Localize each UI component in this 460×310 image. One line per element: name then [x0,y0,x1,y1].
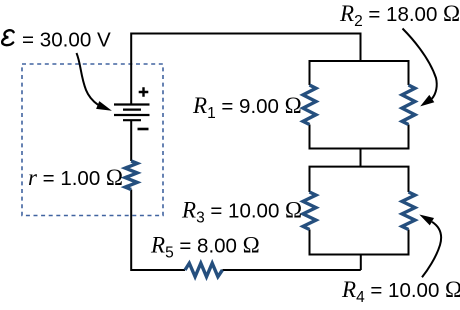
battery plus terminal label [139,87,149,97]
resistor r (internal resistance, vertical zigzag) [125,161,137,190]
wire: bottom rail (right of R5) [222,269,360,271]
svg-text:R2 = 18.00 Ω: R2 = 18.00 Ω [339,1,460,30]
wire: battery bottom to r resistor to bottom rail [130,121,132,272]
wire: lower parallel box outline (top/bottom + edge segments) [310,167,409,255]
label emf = 30.00 V [2,29,111,52]
arrow from R4 label to R4 [419,215,441,278]
svg-text:= 30.00 V: = 30.00 V [22,29,111,52]
wire: connector between parallel boxes [360,149,362,167]
svg-text:R3 = 10.00 Ω: R3 = 10.00 Ω [181,198,302,227]
resistor R1 (vertical zigzag, left edge upper box) [303,85,316,125]
label R5 = 8.00 ohm [150,233,260,262]
svg-text:r = 1.00 Ω: r = 1.00 Ω [28,165,123,190]
battery minus terminal label [138,128,149,131]
battery (EMF source, two-cell symbol) [114,105,150,121]
svg-text:R5 = 8.00 Ω: R5 = 8.00 Ω [150,233,260,262]
arrow from R2 label to R2 [403,29,437,107]
wire: upper parallel box outline (top/bottom + edge segments) [310,61,409,149]
label R4 = 10.00 ohm [341,277,460,306]
wire: battery top to top rail to upper box [131,34,360,105]
arrow from emf label to battery [77,53,112,111]
label R1 = 9.00 ohm [192,93,302,122]
wire: lower box to bottom rail [360,255,362,271]
resistor R4 (vertical zigzag, right edge lower box) [402,192,415,230]
wire: bottom rail (left of R5) [131,269,185,271]
label r = 1.00 ohm [28,165,123,190]
resistor R2 (vertical zigzag, right edge upper box) [402,85,415,125]
label R3 = 10.00 ohm [181,198,302,227]
label R2 = 18.00 ohm [339,1,460,30]
dashed EMF source boundary box [22,64,163,216]
resistor R3 (vertical zigzag, left edge lower box) [303,192,316,230]
resistor R5 (horizontal zigzag, bottom rail) [185,263,222,277]
svg-text:R1 = 9.00 Ω: R1 = 9.00 Ω [192,93,302,122]
svg-text:R4 = 10.00 Ω: R4 = 10.00 Ω [341,277,460,306]
